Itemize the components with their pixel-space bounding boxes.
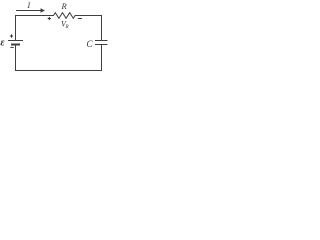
- svg-text:R: R: [61, 1, 68, 11]
- svg-text:I: I: [27, 1, 31, 10]
- svg-text:C: C: [87, 39, 94, 49]
- svg-text:R: R: [65, 25, 69, 30]
- svg-text:ε: ε: [0, 37, 5, 48]
